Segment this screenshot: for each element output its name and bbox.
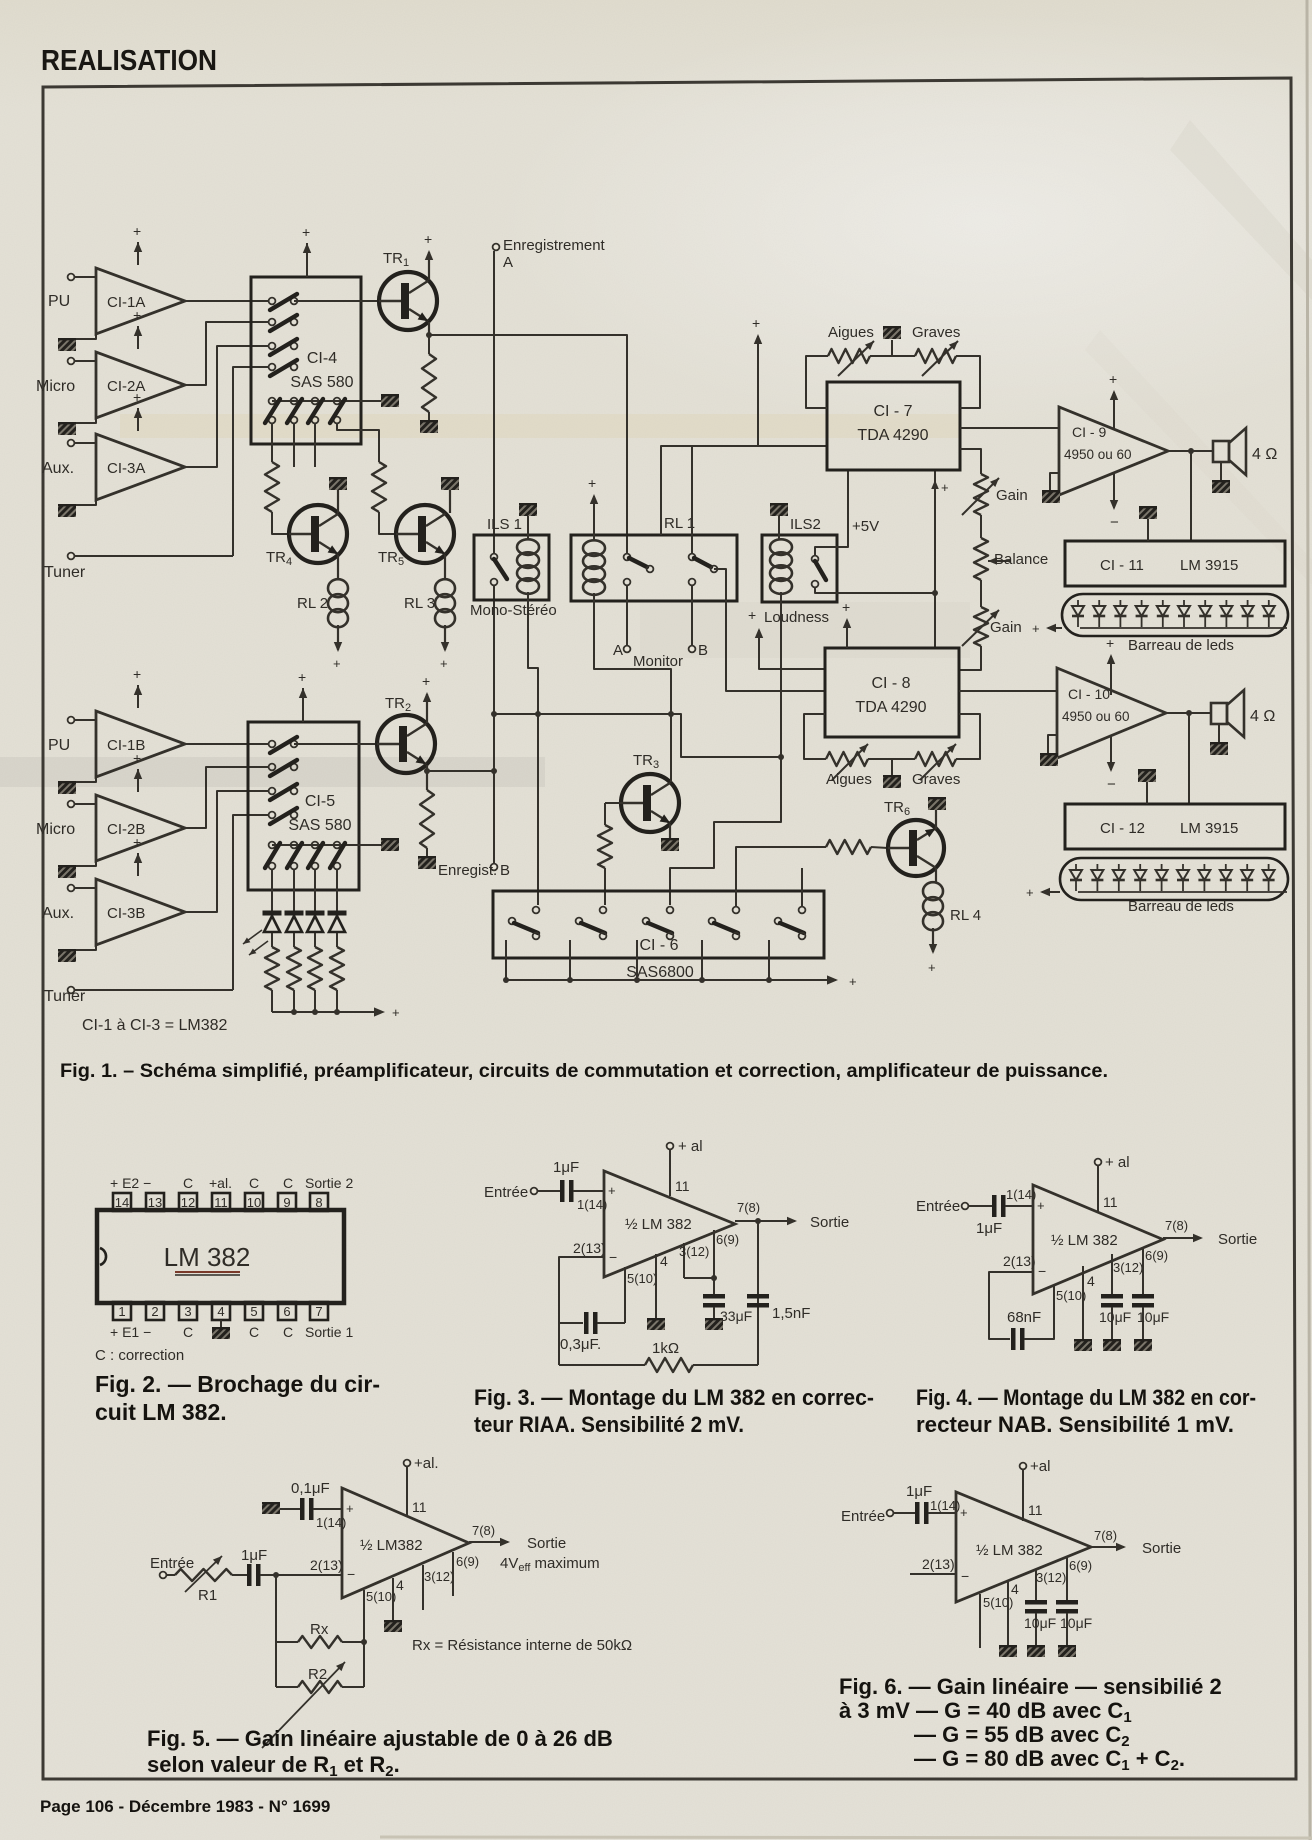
svg-text:½ LM382: ½ LM382 [360,1537,423,1554]
svg-text:−: − [609,1249,617,1265]
page right edge shadow [1307,0,1310,1840]
svg-text:Enregistrement: Enregistrement [503,237,606,254]
wire RL1 input staple to CI-7 [661,446,827,535]
ground above CI-11 [1139,506,1157,519]
potentiometer Graves CI-7 [915,349,956,363]
svg-text:1μF: 1μF [241,1547,267,1564]
svg-text:+: + [440,656,448,671]
svg-text:B: B [500,862,510,879]
wire resistor 4 to bus [336,990,338,1012]
stub from CI-4 lower switch 3 [314,424,316,467]
svg-text:2: 2 [151,1304,158,1319]
svg-text:2(13): 2(13) [573,1240,606,1256]
svg-text:3(12): 3(12) [679,1244,709,1259]
IC CI-11 LM 3915 box [1065,541,1285,586]
svg-text:−: − [1038,1263,1046,1279]
svg-text:Entrée: Entrée [916,1198,960,1215]
ground between pots CI-7 [870,355,915,357]
output fig6 [1091,1546,1124,1548]
speaker B [1211,703,1227,724]
svg-text:6: 6 [283,1304,290,1319]
pin4 wire fig6 [1007,1582,1009,1645]
svg-text:Balance: Balance [994,551,1048,568]
op-amp half LM382 fig3 [604,1171,735,1277]
coil of ILS2 [770,539,792,555]
svg-text:4: 4 [1087,1273,1095,1289]
svg-text:+: + [960,1505,968,1520]
coil RL4 [923,882,943,900]
svg-text:+: + [298,669,306,685]
svg-text:6(9): 6(9) [1069,1558,1092,1573]
pin 6(9) stub fig5 [452,1552,454,1596]
bottom rail with 1k fig3 [559,1364,645,1366]
svg-text:Sortie: Sortie [810,1214,849,1231]
resistor TR5 base [372,462,386,512]
wire RL1 coil to TR3 collector [594,593,671,712]
svg-text:RL 4: RL 4 [950,907,981,924]
supply arrow CI-10 plus [1110,656,1112,695]
pin 8 of LM382 [310,1193,328,1211]
svg-text:C: C [183,1324,193,1340]
potentiometer Graves CI-8 [915,752,956,766]
input terminal of CI-1B [68,717,75,724]
supply arrow CI-10 minus [1110,735,1112,770]
ground pin4 fig3 [647,1318,665,1330]
ground under speaker A [1220,462,1222,480]
lower switch 4 in CI-4 [334,398,341,405]
wire resistor 3 to bus [314,990,316,1012]
switch 2 in RL1 [689,554,696,561]
resistor under LED 4 [330,947,344,990]
node monitor B [689,646,696,653]
wire CI-7 to gain chain [960,449,981,474]
pin 3 of LM382 [179,1302,197,1320]
svg-text:3(12): 3(12) [424,1569,454,1584]
transistor TR4 [289,505,347,563]
op-amp half LM382 fig4 [1033,1185,1163,1294]
ground at CI-9 input [1050,473,1059,490]
output fig4 [1163,1237,1201,1239]
feedback wire fig4 [989,1272,1033,1339]
wire CI-5 lower switch 2 to LED [293,870,295,911]
switch 4 in CI-6 [733,907,740,914]
svg-text:CI-3B: CI-3B [107,905,145,922]
svg-text:4Veff maximum: 4Veff maximum [500,1555,600,1574]
capacitor 10uF left fig4 [1101,1294,1123,1299]
svg-text:Loudness: Loudness [764,609,829,626]
svg-text:10μF: 10μF [1060,1615,1092,1631]
svg-text:+: + [928,960,936,975]
svg-text:7: 7 [315,1304,322,1319]
op-amp CI-3B [96,879,185,945]
op-amp CI-1B [96,711,185,777]
wire to bottom rail fig3 [558,1323,560,1365]
lower switch 3 in CI-4 [312,398,319,405]
supply arrow of CI-3B [137,853,139,876]
wire TR3 base [605,802,622,804]
svg-text:CI - 6: CI - 6 [639,937,678,954]
svg-text:+: + [1037,1198,1045,1213]
svg-text:PU: PU [48,293,70,310]
supply arrow of CI-1B [137,685,139,708]
lower switch 1 in CI-5 [269,842,276,849]
svg-text:1kΩ: 1kΩ [652,1340,679,1357]
svg-text:7(8): 7(8) [1094,1528,1117,1543]
wire ILS1 coil down [528,592,538,905]
svg-text:4 Ω: 4 Ω [1252,446,1277,463]
relay ILS2 box [762,535,837,602]
paper show-through band upper [120,414,960,438]
svg-text:0,3μF.: 0,3μF. [560,1336,601,1353]
switch 1 in CI-6 [533,907,540,914]
svg-text:Graves: Graves [912,771,960,788]
IC CI-7 TDA 4290 box [827,382,960,470]
svg-text:3: 3 [184,1304,191,1319]
supply arrow CI-9 plus [1113,392,1115,430]
wire CI-4 sw to TR4 resistor [271,424,273,462]
ground under TR1 resistor [420,420,438,433]
speaker A [1213,441,1229,462]
wire ILS2 coil down to CI-6 [670,592,781,905]
svg-text:Gain: Gain [990,619,1022,636]
svg-text:6(9): 6(9) [716,1232,739,1247]
svg-text:Aux.: Aux. [42,460,74,477]
wire CI-5 to TR2 base [294,743,376,745]
op-amp CI-2B [96,795,185,861]
svg-text:7(8): 7(8) [737,1200,760,1215]
arrow below RL2 [337,625,339,650]
svg-text:+: + [133,666,141,682]
arrow below RL4 [932,928,934,952]
riser CI-6 to bus [701,940,703,980]
ground of CI-4 lower bus [381,394,399,407]
svg-text:9: 9 [283,1195,290,1210]
IC CI-12 LM 3915 box [1065,804,1285,849]
svg-text:Entrée: Entrée [150,1555,194,1572]
wire gain to balance [980,515,982,538]
bottom scan streak [380,1837,1312,1838]
lower switch 1 in CI-4 [269,398,276,405]
node Enregistrement A [493,244,500,251]
svg-text:Sortie: Sortie [1142,1540,1181,1557]
ground of CI-2B [70,861,96,866]
supply arrow CI-9 minus [1113,473,1115,508]
wire CI-9 to CI-11 [1190,451,1192,541]
wire Enregistrement junction to CI-6 area [494,714,781,757]
supply arrow TR2 collector [426,694,428,723]
svg-text:−: − [961,1568,969,1584]
stub from CI-4 lower switch 2 [293,424,295,467]
svg-text:Graves: Graves [912,324,960,341]
svg-text:CI - 10: CI - 10 [1068,686,1110,702]
IC CI-4 SAS 580 box [251,277,361,444]
supply arrow of CI-2A [137,326,139,349]
svg-text:Tuner: Tuner [44,564,86,581]
svg-text:CI-4: CI-4 [307,350,337,367]
ground of CI-3A [70,500,96,505]
svg-text:+: + [849,974,857,989]
supply arrow above CI-5 [302,688,304,722]
resistor TR3 base [604,803,606,825]
svg-text:Sortie 1: Sortie 1 [305,1324,353,1340]
svg-text:13: 13 [148,1195,162,1210]
LED diode 2 under CI-5 [285,911,304,916]
ground above TR6 collector [928,797,946,810]
coil of RL1 [583,540,605,556]
arrow below RL3 [444,625,446,650]
ground at fig5 + input [262,1502,280,1514]
supply arrow of CI-2B [137,769,139,792]
resistor TR6 base [826,840,871,854]
input terminal of CI-1A [68,274,75,281]
Rx loop fig5 [275,1575,277,1687]
svg-text:2(13): 2(13) [1003,1253,1036,1269]
svg-text:C : correction: C : correction [95,1347,184,1364]
capacitor 33uF fig3 [703,1294,725,1299]
svg-text:+ al: + al [678,1138,703,1155]
wire RL1 sw2 to monitor B [691,585,693,645]
input terminal of CI-2A [68,358,75,365]
tuner B terminal [68,987,75,994]
switch contact row 1 in CI-4 [269,298,276,305]
svg-text:1(14): 1(14) [577,1197,607,1212]
wire CI-5 lower switch 4 to LED [336,870,338,911]
svg-text:C: C [249,1175,259,1191]
resistor at TR1 emitter [428,335,430,354]
node monitor A [624,646,631,653]
svg-text:+: + [133,834,141,850]
svg-text:6(9): 6(9) [456,1554,479,1569]
lower switch 2 in CI-5 [291,842,298,849]
svg-text:1(14): 1(14) [930,1498,960,1513]
wire TR2 emitter to Enregist line [427,770,494,772]
paper show-through patch mid-right [640,602,970,658]
pin 13 of LM382 [146,1193,164,1211]
svg-text:CI-5: CI-5 [305,793,335,810]
svg-text:+al.: +al. [209,1175,232,1191]
supply terminal +al fig5 [404,1460,411,1467]
wire LED 2 to resistor [293,933,295,947]
svg-text:+: + [422,673,430,689]
svg-text:10μF: 10μF [1099,1309,1131,1325]
LED diode 3 under CI-5 [306,911,325,916]
wire ILS2 lower contact to node [815,587,935,593]
wire LED 4 to resistor [336,933,338,947]
relay ILS1 box [474,535,549,600]
pin 4 wire fig3 [655,1254,657,1318]
capacitor 68nF fig4 [1011,1328,1016,1350]
ground of CI-2A [70,418,96,423]
wire Enregistrement vertical [493,251,495,553]
wire CI-9 output [1168,450,1213,452]
svg-text:Sortie: Sortie [1218,1231,1257,1248]
switch 3 in CI-6 [667,907,674,914]
svg-text:3(12): 3(12) [1036,1570,1066,1585]
svg-text:68nF: 68nF [1007,1309,1041,1326]
ground at TR3 emitter [669,824,671,838]
svg-text:1(14): 1(14) [316,1515,346,1530]
LED bar B [1060,858,1288,900]
svg-text:TDA 4290: TDA 4290 [857,427,928,444]
pin 3(12) wire fig6 [1035,1570,1037,1600]
IC package LM 382 body [97,1210,344,1303]
input terminal of CI-3A [68,440,75,447]
resistor under LED 1 [265,947,279,990]
pin 3(12) stub fig5 [422,1565,424,1610]
bus wire of CI-4 lower switches [272,400,381,402]
lower switch 4 in CI-5 [334,842,341,849]
svg-text:12: 12 [181,1195,195,1210]
svg-text:+: + [941,480,949,495]
supply arrow on CI-8 [846,620,848,648]
wire CI-2B output to CI-5 [185,767,268,828]
svg-text:Barreau de leds: Barreau de leds [1128,637,1234,654]
wire TR1 emitter node [428,322,430,336]
svg-text:2(13): 2(13) [310,1557,343,1573]
svg-text:Mono-Stéréo: Mono-Stéréo [470,602,557,619]
wire CI-5 lower switch 1 to LED [271,870,273,911]
wire RL1 sw2 contact to CI-8 [714,569,825,691]
potentiometer Aigues CI-7 [828,349,870,363]
svg-text:R2: R2 [308,1666,327,1683]
bracket to tone pots CI-8 [804,714,826,759]
supply arrow above RL1 coil [593,496,595,541]
svg-text:+: + [424,231,432,247]
wire CI-3B output to CI-5 [185,791,268,912]
svg-text:11: 11 [412,1499,427,1515]
riser CI-6 to bus [505,940,507,980]
svg-text:CI-3A: CI-3A [107,460,145,477]
potentiometer Balance [974,538,988,580]
svg-text:Aux.: Aux. [42,905,74,922]
svg-text:CI-1 à CI-3 = LM382: CI-1 à CI-3 = LM382 [82,1017,228,1034]
wire CI-4 sw to TR5 resistor [337,424,379,462]
riser CI-6 to bus [768,940,770,980]
svg-text:+: + [752,315,760,331]
supply arrow TR1 collector [428,252,430,280]
ground of CI-1A [70,334,96,339]
svg-text:LM 382: LM 382 [164,1242,251,1272]
resistor under LED 3 [308,947,322,990]
ground above ILS2 coil [770,503,788,516]
svg-text:C: C [283,1175,293,1191]
svg-text:teur RIAA. Sensibilité 2 mV.: teur RIAA. Sensibilité 2 mV. [474,1412,744,1437]
svg-text:4: 4 [660,1253,668,1269]
svg-text:8: 8 [315,1195,322,1210]
wire CI-1A output to CI-4 [185,300,268,302]
potentiometer Gain upper [974,474,988,515]
wire TR2 emitter node [426,765,428,790]
wire TR5 emitter to RL3 [444,555,446,580]
svg-text:+5V: +5V [852,518,879,535]
arrow out of LED bar A [1080,627,1287,629]
svg-text:10μF: 10μF [1137,1309,1169,1325]
input stub 2(13) fig6 [910,1573,956,1575]
reed switch in ILS2 [812,556,819,563]
supply arrow of CI-3A [137,408,139,431]
switch contact row 3 in CI-5 [269,788,276,795]
transistor TR3 [621,774,679,832]
LED diode 4 under CI-5 [328,911,347,916]
svg-text:−: − [1107,776,1116,793]
op-amp CI-3A [96,434,185,500]
pin 3(12) wire fig3 [683,1243,685,1278]
wire pin4 to TR6 base resistor [736,847,826,906]
switch contact row 1 in CI-5 [269,741,276,748]
potentiometer R1 fig5 [175,1569,232,1581]
svg-text:10: 10 [247,1195,261,1210]
svg-text:7(8): 7(8) [472,1523,495,1538]
relay RL1 box [571,535,737,601]
svg-text:+: + [1106,635,1114,651]
svg-text:10μF: 10μF [1024,1615,1056,1631]
svg-text:3(12): 3(12) [1113,1260,1143,1275]
svg-text:C: C [249,1324,259,1340]
svg-text:4: 4 [396,1577,404,1593]
svg-text:Barreau de leds: Barreau de leds [1128,898,1234,915]
transistor TR5 [396,505,454,563]
wire TR6 emitter to RL4 [935,868,937,883]
svg-text:Fig. 6. — Gain linéaire — sens: Fig. 6. — Gain linéaire — sensibilié 2 [839,1674,1222,1699]
svg-text:SAS 580: SAS 580 [290,374,353,391]
svg-text:+: + [133,750,141,766]
output fig5 [469,1541,508,1543]
bracket to tone pots CI-7 [806,356,828,408]
svg-text:CI - 12: CI - 12 [1100,820,1145,837]
supply arrow on CI-7 input wire [757,336,759,446]
svg-text:REALISATION: REALISATION [41,45,217,77]
wire CI-4 to TR1 base [294,300,378,302]
arrow out of LED bar B [1078,891,1287,893]
ground above CI-12 [1138,769,1156,782]
svg-text:Sortie 2: Sortie 2 [305,1175,353,1191]
svg-text:LM 3915: LM 3915 [1180,820,1238,837]
IC CI-5 SAS 580 box [248,722,359,890]
svg-text:A: A [503,254,513,271]
svg-text:1μF: 1μF [906,1483,932,1500]
wire CI-10 to CI-12 [1188,713,1190,804]
ground under TR2 resistor [418,856,436,869]
wire CI-3A output to CI-4 [185,346,268,467]
svg-text:1μF: 1μF [553,1159,579,1176]
paper show-through band mid-left [0,757,545,787]
ground under speaker B [1218,724,1220,742]
pin 9 of LM382 [278,1193,296,1211]
svg-text:SAS 580: SAS 580 [288,817,351,834]
riser CI-6 to bus [569,940,571,980]
svg-text:+: + [302,224,310,240]
svg-text:Entrée: Entrée [841,1508,885,1525]
svg-text:1μF: 1μF [976,1220,1002,1237]
coil of ILS1 [517,539,539,555]
switch contact row 2 in CI-5 [269,764,276,771]
svg-text:— G = 80 dB avec C1 + C2.: — G = 80 dB avec C1 + C2. [914,1746,1185,1774]
svg-text:Fig. 1. – Schéma simplifié, pr: Fig. 1. – Schéma simplifié, préamplifica… [60,1061,1108,1082]
svg-text:+: + [133,307,141,323]
op-amp CI-2A [96,352,185,418]
svg-text:+: + [133,223,141,239]
switch 1 in RL1 [624,554,631,561]
pin 12 of LM382 [179,1193,197,1211]
LED emission arrows [243,930,262,944]
svg-text:−: − [347,1566,355,1582]
wire resistor 1 to bus [271,990,273,1012]
svg-text:5(10): 5(10) [366,1589,396,1604]
svg-text:11: 11 [675,1178,690,1194]
pin 6 of LM382 [278,1302,296,1320]
wire Tuner B to CI-5 [233,815,268,990]
supply terminal +al fig6 [1020,1463,1027,1470]
